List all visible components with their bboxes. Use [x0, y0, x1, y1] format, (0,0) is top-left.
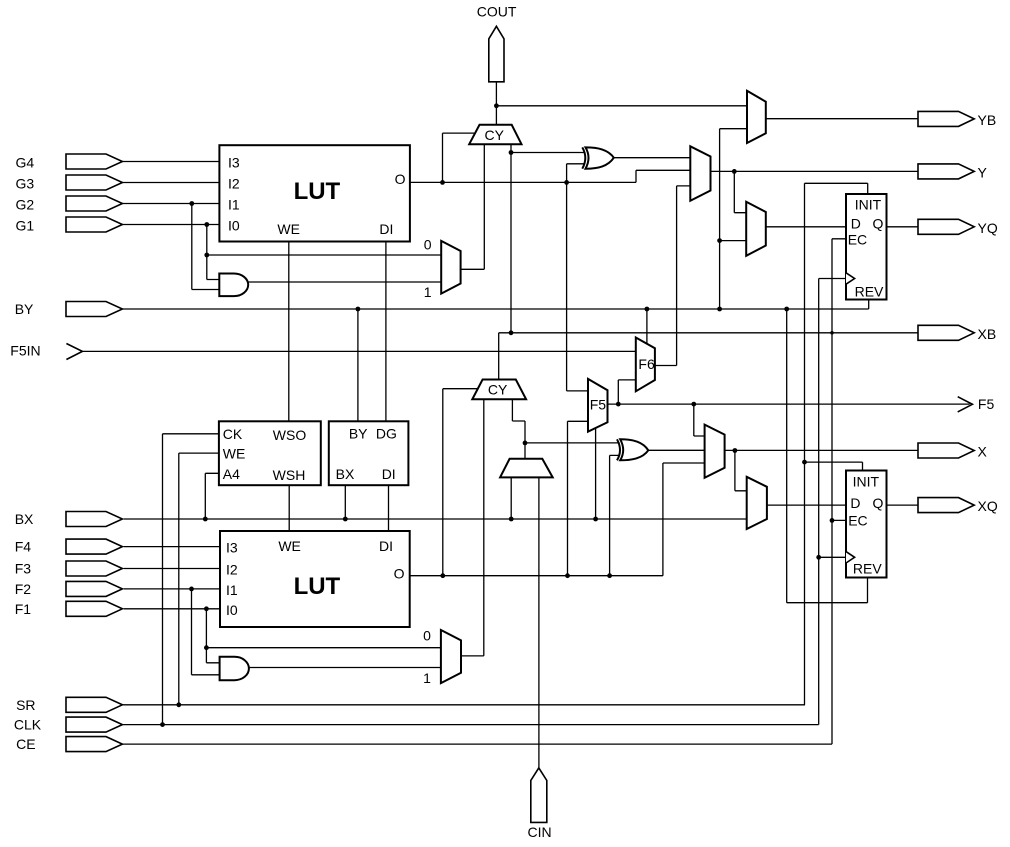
- svg-text:REV: REV: [853, 561, 882, 577]
- svg-text:DI: DI: [379, 538, 393, 554]
- svg-text:CIN: CIN: [528, 824, 552, 840]
- svg-text:WE: WE: [277, 221, 300, 237]
- svg-text:F3: F3: [15, 561, 32, 577]
- svg-text:DI: DI: [379, 221, 393, 237]
- svg-text:CLK: CLK: [14, 717, 42, 733]
- svg-text:O: O: [395, 171, 406, 187]
- svg-text:LUT: LUT: [294, 573, 341, 600]
- svg-text:BY: BY: [15, 301, 34, 317]
- svg-text:I3: I3: [226, 540, 238, 556]
- svg-text:I2: I2: [228, 176, 240, 192]
- svg-text:INIT: INIT: [853, 474, 880, 490]
- svg-text:F5: F5: [590, 397, 607, 413]
- svg-text:I1: I1: [228, 197, 240, 213]
- svg-text:EC: EC: [848, 231, 867, 247]
- svg-text:G1: G1: [16, 218, 35, 234]
- svg-text:BY: BY: [349, 425, 368, 441]
- svg-text:CY: CY: [488, 382, 508, 398]
- svg-text:F6: F6: [638, 356, 655, 372]
- svg-text:D: D: [850, 495, 860, 511]
- svg-text:I0: I0: [228, 218, 240, 234]
- svg-text:A4: A4: [223, 466, 240, 482]
- svg-text:WSH: WSH: [273, 467, 306, 483]
- svg-text:EC: EC: [848, 512, 867, 528]
- svg-text:F5: F5: [978, 396, 995, 412]
- svg-text:BX: BX: [15, 511, 34, 527]
- svg-text:SR: SR: [16, 697, 35, 713]
- svg-text:REV: REV: [855, 284, 884, 300]
- svg-text:Q: Q: [872, 215, 883, 231]
- svg-text:I1: I1: [226, 582, 238, 598]
- svg-text:D: D: [851, 215, 861, 231]
- svg-text:F2: F2: [15, 581, 32, 597]
- svg-text:G2: G2: [16, 197, 35, 213]
- svg-text:DI: DI: [382, 466, 396, 482]
- svg-text:F4: F4: [15, 539, 32, 555]
- svg-text:Y: Y: [978, 164, 988, 180]
- svg-text:YB: YB: [978, 112, 997, 128]
- svg-text:CY: CY: [484, 127, 504, 143]
- svg-text:G4: G4: [16, 155, 35, 171]
- svg-text:I2: I2: [226, 562, 238, 578]
- svg-text:WE: WE: [223, 446, 246, 462]
- svg-text:YQ: YQ: [978, 220, 998, 236]
- svg-text:0: 0: [423, 627, 431, 643]
- svg-text:1: 1: [424, 284, 432, 300]
- svg-text:F5IN: F5IN: [10, 342, 40, 358]
- svg-text:G3: G3: [16, 176, 35, 192]
- svg-text:LUT: LUT: [294, 178, 341, 205]
- svg-text:CE: CE: [16, 736, 35, 752]
- svg-text:COUT: COUT: [477, 4, 517, 20]
- svg-text:Q: Q: [872, 495, 883, 511]
- svg-text:XB: XB: [978, 326, 997, 342]
- svg-text:DG: DG: [376, 425, 397, 441]
- svg-text:XQ: XQ: [978, 498, 998, 514]
- svg-text:I3: I3: [228, 155, 240, 171]
- svg-text:INIT: INIT: [855, 196, 882, 212]
- svg-text:I0: I0: [226, 602, 238, 618]
- svg-text:O: O: [394, 566, 405, 582]
- svg-text:BX: BX: [336, 466, 355, 482]
- svg-text:X: X: [978, 444, 988, 460]
- svg-text:0: 0: [424, 236, 432, 252]
- svg-text:1: 1: [423, 670, 431, 686]
- svg-text:WE: WE: [278, 538, 301, 554]
- svg-text:CK: CK: [223, 426, 243, 442]
- svg-text:WSO: WSO: [273, 427, 307, 443]
- svg-text:F1: F1: [15, 601, 32, 617]
